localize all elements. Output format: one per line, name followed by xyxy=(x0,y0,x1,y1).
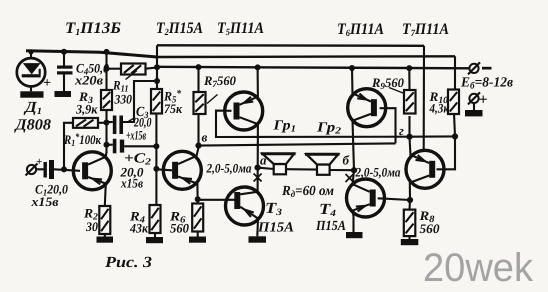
svg-text:Т5П11А: Т5П11А xyxy=(217,20,264,38)
svg-text:Т2П15А: Т2П15А xyxy=(156,20,203,38)
break mark x at T4 collector xyxy=(346,174,354,182)
resistor R5* xyxy=(151,89,162,114)
transistor T7 П11А xyxy=(406,150,444,188)
wire R11 right lead xyxy=(146,68,158,69)
node C1-R1-T1 base xyxy=(61,166,67,172)
node C4 top xyxy=(61,49,67,55)
node diode rail xyxy=(28,49,33,54)
rail A (top rail to T7 collector) xyxy=(157,44,424,47)
svg-text:Т4: Т4 xyxy=(319,201,336,219)
node rail C R9 xyxy=(406,65,412,71)
wire Gr2 to node b xyxy=(330,169,354,171)
transistor T6 П11А xyxy=(348,89,386,127)
resistor R4 xyxy=(150,205,161,233)
pointer R7 label to box xyxy=(207,95,218,104)
wire rail A to T7 collector xyxy=(423,46,425,150)
pointer C3 label to plates xyxy=(128,118,136,123)
wire R5 bottom to R4 xyxy=(155,114,157,206)
wire to T2 base xyxy=(156,169,172,170)
resistor R9 xyxy=(404,90,416,114)
wire rail C to R7 xyxy=(197,67,199,94)
wire T6 base to line2 xyxy=(380,108,396,143)
wire rail B to R10 xyxy=(454,56,456,89)
transistor T3 П15А xyxy=(226,187,264,225)
wire mic to C1 xyxy=(36,168,43,170)
wire rail C to R9 xyxy=(408,68,410,90)
wire R2 bottom xyxy=(104,234,106,237)
wire T6 upper electrode to rail C xyxy=(351,68,354,95)
svg-text:Rд=60 ом: Rд=60 ом xyxy=(281,184,334,200)
wire R6 bottom xyxy=(197,232,199,237)
wire T4 emitter to ground xyxy=(352,210,353,232)
node a junction xyxy=(255,165,261,171)
ground under R4 xyxy=(146,237,163,243)
wire T7 lower electrode to R8 node xyxy=(409,181,411,200)
wire T2 emitter down xyxy=(196,183,198,204)
node T2 emitter T3 base xyxy=(195,196,201,202)
resistor R8 xyxy=(404,210,416,237)
svg-text:Гр1: Гр1 xyxy=(272,119,296,135)
svg-text:+: + xyxy=(479,92,488,109)
svg-text:30: 30 xyxy=(85,219,98,234)
node v junction xyxy=(195,143,201,149)
ground under diode xyxy=(20,91,43,97)
svg-text:43к: 43к xyxy=(129,221,148,236)
svg-text:Т7П11А: Т7П11А xyxy=(402,21,449,39)
ground at plus terminal xyxy=(465,110,483,116)
svg-text:Гр2: Гр2 xyxy=(316,121,342,137)
resistor R2 xyxy=(99,206,110,234)
zener diode D1 xyxy=(17,58,45,86)
wire T3 emitter to ground xyxy=(256,219,259,236)
transistor T4 П15А xyxy=(347,179,385,217)
svg-text:х15в: х15в xyxy=(120,176,143,191)
wire R7 bottom to node v xyxy=(197,114,199,146)
wire T2 emitter to T3 base xyxy=(198,199,236,201)
pointer R11 label to box xyxy=(126,71,138,80)
ground under R8 xyxy=(401,239,419,245)
wire T4 base to node xyxy=(378,198,410,200)
node rail C R7 xyxy=(196,64,202,70)
svg-text:П15А: П15А xyxy=(257,221,294,236)
svg-text:330: 330 xyxy=(114,92,133,107)
minus terminal xyxy=(468,62,480,74)
wire node g to R10 node xyxy=(410,135,456,137)
svg-text:Д808: Д808 xyxy=(13,117,51,134)
wire C2 right to bias node xyxy=(124,145,156,147)
speaker Gr1 xyxy=(261,154,296,175)
resistor R10 xyxy=(448,90,459,115)
svg-text:2,0-5,0ма: 2,0-5,0ма xyxy=(355,165,401,180)
transistor T2 П15А xyxy=(163,151,201,189)
node C2 left xyxy=(104,142,110,148)
ground under T3 xyxy=(249,236,267,242)
svg-text:+х15в: +х15в xyxy=(126,128,146,143)
svg-text:R9560: R9560 xyxy=(371,75,404,92)
capacitor C2 xyxy=(113,139,124,154)
rail C (minus bus to battery terminal) xyxy=(157,67,470,69)
node C2-R5-R4 xyxy=(153,143,159,149)
wire R9 bottom to node g xyxy=(408,116,410,137)
microphone jack xyxy=(26,164,38,176)
resistor R11 xyxy=(121,64,146,75)
wire Gr1 to Gr2 xyxy=(286,168,317,171)
node R11 right rail C start xyxy=(154,64,160,70)
plus terminal xyxy=(468,92,480,104)
svg-text:х15в: х15в xyxy=(30,194,58,209)
wire node v to T6 base line2 xyxy=(199,143,396,145)
svg-text:+: + xyxy=(43,76,51,91)
svg-text:560: 560 xyxy=(420,221,441,236)
wire T1 emitter to R2 xyxy=(105,184,106,206)
svg-text:R7560: R7560 xyxy=(203,73,236,90)
left supply rail (minus) xyxy=(26,51,157,57)
wire R10 bottom to node xyxy=(454,113,455,136)
wire C1 to T1 base xyxy=(54,169,80,171)
left column vertical joining rails and R5 xyxy=(156,45,158,89)
wire T2 collector up to node v xyxy=(196,148,198,158)
svg-text:4,3к: 4,3к xyxy=(429,101,450,116)
svg-text:560: 560 xyxy=(170,221,189,236)
node rail C T6 xyxy=(349,65,355,71)
svg-text:Т1П13Б: Т1П13Б xyxy=(65,20,121,38)
wire C3 right to R5 node xyxy=(123,81,157,122)
ground under R6 xyxy=(189,237,206,243)
svg-text:2,0-5,0ма: 2,0-5,0ма xyxy=(206,161,252,176)
wire R1 right lead xyxy=(98,122,107,124)
ground under T4 xyxy=(346,232,363,238)
svg-text:Т3: Т3 xyxy=(265,200,282,218)
node g junction xyxy=(406,134,412,140)
wire plus to ground xyxy=(473,103,475,110)
svg-text:20wek: 20wek xyxy=(423,246,534,290)
speaker Gr2 xyxy=(305,154,340,175)
wire diode top xyxy=(30,52,32,59)
wire R11 left lead xyxy=(107,68,122,70)
node R1 right C3 left xyxy=(104,120,110,126)
capacitor C4 xyxy=(57,66,73,75)
capacitor C1 xyxy=(44,160,55,179)
wire diode bottom xyxy=(30,86,32,91)
node rail C T5 xyxy=(255,64,261,70)
wire node to R8 xyxy=(408,200,411,210)
svg-text:Рис. 3: Рис. 3 xyxy=(105,254,152,271)
svg-text:R1*100к: R1*100к xyxy=(63,132,101,149)
transistor T5 П11А xyxy=(225,92,263,130)
svg-text:П15А: П15А xyxy=(315,219,346,234)
wire T4 collector to node b xyxy=(352,170,354,186)
svg-text:в: в xyxy=(202,130,208,145)
wire R1 left lead down to T1 base xyxy=(64,123,73,170)
svg-text:75к: 75к xyxy=(164,101,182,116)
wire C4 top xyxy=(63,52,65,66)
node R3 column top xyxy=(104,49,110,55)
node R10 T7 base xyxy=(452,133,458,139)
wire C4 bottom xyxy=(63,75,65,92)
capacitor C3 xyxy=(113,116,123,135)
wire T5 base L to line1 xyxy=(216,111,410,137)
wire T6 lower electrode to node b xyxy=(353,120,355,170)
node T2 base tap xyxy=(153,166,159,172)
svg-text:+: + xyxy=(36,156,42,168)
wire C3 left xyxy=(107,121,113,123)
minus sign xyxy=(482,67,492,70)
svg-text:Еб=8-12в: Еб=8-12в xyxy=(460,76,514,92)
wire R8 bottom xyxy=(408,236,410,239)
node C3 tap on R5 column xyxy=(154,78,160,84)
node T7 emitter T4 base R8 xyxy=(407,197,413,203)
wire node g to T7 upper electrode xyxy=(410,137,411,156)
ground under R2 xyxy=(97,237,114,243)
resistor R1* xyxy=(73,118,98,128)
wire node to T7 base xyxy=(437,136,456,169)
svg-text:Т6П11А: Т6П11А xyxy=(337,21,384,39)
wire node a to Gr1 xyxy=(258,168,274,169)
wire R4 bottom xyxy=(154,233,156,237)
node b junction xyxy=(351,167,357,173)
wire R3 bottom to T1 collector xyxy=(105,110,107,153)
svg-text:б: б xyxy=(343,153,350,168)
svg-text:3,9к: 3,9к xyxy=(75,102,98,117)
resistor R6 xyxy=(192,204,203,232)
wire T1 collector up xyxy=(105,152,108,158)
wire T5 top electrode to rail C xyxy=(257,67,259,98)
resistor R3 xyxy=(101,90,112,110)
wire rail to R3 xyxy=(105,52,107,90)
svg-text:г: г xyxy=(399,123,404,138)
pointer R9 label to box xyxy=(389,88,403,94)
svg-text:Д1: Д1 xyxy=(23,99,42,117)
rail B (second rail to R10) xyxy=(157,55,455,58)
svg-text:х20в: х20в xyxy=(74,73,103,88)
wire C2 left xyxy=(107,144,113,146)
ground under C4 xyxy=(55,91,72,97)
wire T5 lower electrode down through node a to T3 xyxy=(257,124,259,192)
transistor T1 П13Б xyxy=(73,152,111,190)
resistor R7 xyxy=(194,92,206,114)
break mark x at node a xyxy=(254,174,262,182)
node R11 left xyxy=(104,66,110,72)
